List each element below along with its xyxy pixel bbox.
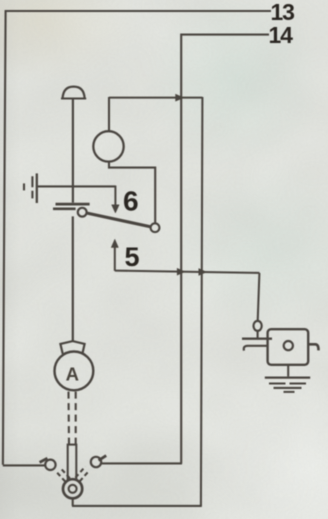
wire 14 horizontal <box>181 34 269 36</box>
wire 13 left vertical <box>3 10 6 465</box>
pivot circle of blade <box>78 208 87 217</box>
lamp L <box>93 131 123 161</box>
wire right long vertical <box>201 97 203 506</box>
svg-text:A: A <box>66 363 79 384</box>
linkage dashed arm right <box>80 470 90 481</box>
junction arrowhead <box>176 94 184 101</box>
svg-text:5: 5 <box>125 242 140 272</box>
ground G2 bar 3 <box>274 387 302 389</box>
wire to left roller <box>3 464 45 466</box>
blade tail bar <box>53 207 76 210</box>
switch blade <box>87 213 151 227</box>
wire to right roller <box>101 462 182 464</box>
ground G2 bar 4 <box>284 391 295 393</box>
wire 14 vertical <box>180 34 182 464</box>
relay K box <box>268 329 309 365</box>
ground G1 bar mid <box>31 176 33 198</box>
ground G2 bar 2 <box>269 382 306 384</box>
linkage dashed rod <box>67 392 70 446</box>
arrow to blade 5 <box>114 247 116 271</box>
roller right <box>91 457 101 467</box>
roller left <box>45 460 55 470</box>
hop arrowhead at right vertical <box>199 269 207 276</box>
button dome <box>63 87 85 99</box>
lamp stem top <box>108 97 110 132</box>
hop arrowhead at wire 14 <box>177 268 185 275</box>
svg-text:14: 14 <box>269 22 294 48</box>
ground G1 wire <box>38 185 116 187</box>
button stem wire <box>72 98 74 203</box>
ground G1 bar long <box>36 173 38 203</box>
arrow to contact 6 <box>114 186 116 206</box>
fixed contact bar <box>56 203 90 206</box>
pivot stem wire <box>72 499 74 506</box>
svg-text:6: 6 <box>123 185 139 216</box>
relay eyelet terminal <box>254 321 262 331</box>
relay core circle <box>284 341 293 350</box>
wire stem to motor <box>72 216 74 341</box>
linkage solid rod <box>68 445 77 480</box>
wire 5 down to relay <box>258 273 260 321</box>
open contact circle <box>151 223 160 232</box>
motor A body <box>55 352 94 391</box>
linkage dashed arm left <box>56 471 66 481</box>
ground G1 bar short <box>23 183 25 190</box>
wire bottom horizontal <box>72 505 202 507</box>
lamp stem bottom <box>109 161 155 223</box>
wire 13 top horizontal <box>6 10 272 12</box>
relay terminal stem <box>257 331 259 339</box>
relay top bar <box>242 338 272 340</box>
wire 5 horizontal <box>115 271 260 273</box>
bell-crank pivot <box>63 479 82 498</box>
wire lamp feed horizontal <box>109 97 202 99</box>
ground G2 stem <box>287 365 289 377</box>
motor collar <box>60 341 84 354</box>
relay right lead hook <box>308 344 318 350</box>
ground G2 bar 1 <box>265 376 310 378</box>
relay lower lead with hook <box>244 346 268 351</box>
